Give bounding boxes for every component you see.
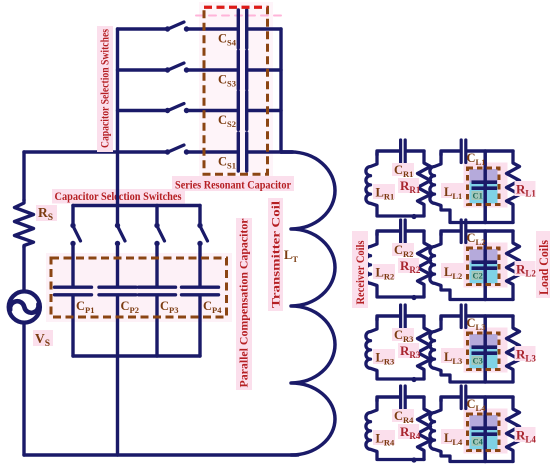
pink halo behind load compensation box 4 [464,409,508,454]
load compensation dashed box 3 [468,333,500,370]
label CR1 [392,163,414,176]
wire switch to capacitor CP3 [155,245,158,286]
inductor LR4 [366,399,424,460]
parallel bank collector wire [73,354,200,357]
load parallel capacitor C2 [472,260,498,264]
pink halo behind parallel compensation capacitor box [46,253,232,322]
pink dashed highlight line above series box [196,15,281,17]
label Capacitor Selection Switches (vertical, series bank) [97,26,113,152]
resistor RR1 [418,151,431,216]
load loop 3 top wire [441,316,460,320]
small label C2 in box [472,271,483,280]
wire stub to switch SP1 [71,206,74,224]
capacitor CL1 [460,140,463,163]
pink halo behind load compensation box 1 [464,163,508,208]
inductor LR2 [366,233,424,297]
wire branch CS3 from bus to switch [118,68,166,71]
capacitor CR1 [399,140,402,163]
svg-text:LT: LT [284,248,298,264]
svg-text:CL2: CL2 [467,231,486,247]
inductor LR3 [366,318,424,379]
svg-text:Receiver Coils: Receiver Coils [355,240,367,305]
wire capacitor CP1 to collector [71,297,74,357]
pink halo behind series resonant capacitor box [199,2,273,180]
pink halo behind load compensation box 2 [464,243,508,288]
switch SP2 (parallel bank) [115,223,120,228]
wire capacitor CP4 to collector [198,297,201,357]
wire capacitor CS1 to right bus [249,150,294,153]
series bank right bus [279,29,282,152]
resistor RR2 [418,231,431,297]
label RL3 [515,346,536,361]
capacitor CL3 [460,305,463,328]
wire branch CS4 from bus to switch [118,27,166,30]
label Receiver Coils (vertical) [352,231,368,308]
parallel compensation capacitor dashed box [51,258,227,317]
capacitor CP2 [99,286,136,289]
junction dot receiver 3 [411,377,416,382]
label RR3 [398,343,419,358]
label RR2 [398,258,419,273]
bottom rail wire [24,453,298,456]
small label C4 in box [472,437,483,446]
load loop 1 top wire [441,151,460,155]
wire main node RS to series bank left bus [24,150,118,153]
label RL4 [515,427,536,442]
wire switch to capacitor CP2 [116,245,119,286]
svg-text:Capacitor Selection Switches: Capacitor Selection Switches [99,28,111,148]
label LR1 [373,184,395,199]
svg-text:C4: C4 [473,437,484,447]
wire branch CS1 from bus to switch [118,150,166,153]
inductor LL3 [430,318,513,382]
label RS [36,205,57,221]
label RL2 [515,261,536,276]
switch SP4 (parallel bank) [197,223,202,228]
resistor RL2 [507,231,520,300]
load loop 4 top wire [441,397,460,401]
label CR3 [392,328,414,341]
junction dot receiver 1 [411,214,416,219]
wire main bus down to parallel switch bus [116,152,119,206]
label LL3 [441,348,465,363]
svg-text:Load Coils: Load Coils [536,240,550,295]
label Series Resonant Capacitor [172,176,294,191]
switch S4 (series bank) [165,26,170,31]
label CR2 [392,243,414,256]
load compensation box fill 3 [470,334,498,348]
receiver loop 2 top wire [377,231,399,235]
wire series bank to transmitter coil [281,150,292,153]
small label C3 in box [472,356,483,365]
wire switch to capacitor CP4 [198,245,201,286]
inductor LL1 [430,153,513,223]
wire capacitor CS4 to right bus [249,27,282,30]
wire branch CS2 from bus to switch [118,109,166,112]
junction dot receiver 2 [411,295,416,300]
svg-text:C3: C3 [473,356,483,366]
capacitor CP3 [139,286,176,289]
load compensation dashed box 1 [468,168,500,205]
label Capacitor Selection Switches (horizontal, parallel bank) [52,189,185,204]
wire capacitor CS3 to right bus [249,68,282,71]
wire stub to switch SP3 [155,206,158,224]
load parallel capacitor C3 [472,345,498,349]
receiver loop 1 top wire [377,151,399,155]
wire resistor to source [22,247,25,291]
svg-text:Parallel Compensation Capacito: Parallel Compensation Capacitor [238,219,250,388]
label LR2 [373,264,395,279]
wire switch to capacitor CP1 [71,245,74,286]
wire switch to capacitor CS1 [188,150,237,153]
wire middle branch load 3 [483,316,487,382]
label Transmitter Coil (vertical) [268,198,283,311]
label VS [33,330,53,346]
label LL4 [441,429,465,444]
wire capacitor CP3 to collector [155,297,158,357]
resistor RL4 [507,397,520,462]
capacitor CR4 [399,386,402,409]
wire stub to switch SP4 [198,206,201,224]
capacitor CP4 [182,286,219,289]
wire capacitor CP2 to collector [116,297,119,357]
label LR3 [373,349,395,364]
load parallel capacitor C4 [472,426,498,430]
capacitor CL2 [460,220,463,243]
capacitor CS1 [237,133,240,171]
capacitor CS3 [237,51,240,89]
transmitter coil LT [281,152,335,455]
svg-text:CL3: CL3 [467,316,486,332]
resistor RS [15,200,34,247]
capacitor CS2 [237,92,240,130]
capacitor CP1 [55,286,92,289]
resistor RR3 [418,316,431,379]
inductor LR1 [366,153,424,216]
series bank left bus [116,29,119,152]
capacitor CL4 [460,386,463,409]
wire source to bottom rail [22,324,25,456]
switch SP1 (parallel bank) [70,223,75,228]
svg-text:C1: C1 [473,191,483,201]
capacitor CS4 [237,10,240,48]
wire stub to switch SP2 [116,206,119,224]
small label C1 in box [472,191,483,200]
parallel switch bus [73,204,200,207]
junction dot receiver 4 [411,457,416,462]
label RR4 [398,424,419,439]
series resonant capacitor dashed box [204,7,268,174]
receiver loop 3 top wire [377,316,399,320]
load loop 2 top wire [441,231,460,235]
load compensation box fill 1 [470,169,498,183]
resistor RR4 [418,397,431,460]
svg-text:Series Resonant Capacitor: Series Resonant Capacitor [175,178,291,192]
load compensation dashed box 2 [468,248,500,285]
label Parallel Compensation Capacitor (vertical) [236,218,252,390]
pink halo behind load compensation box 3 [464,328,508,373]
capacitor CR2 [399,220,402,243]
wire switch to capacitor CS2 [188,109,237,112]
wire middle branch load 2 [483,231,487,300]
inductor LL2 [430,233,513,300]
label RR1 [398,178,419,193]
resistor RL3 [507,316,520,382]
switch SP3 (parallel bank) [154,223,159,228]
load compensation box fill 4 [470,415,498,429]
inductor LL4 [430,399,513,462]
switch S3 (series bank) [165,67,170,72]
svg-text:CL4: CL4 [467,397,487,413]
wire capacitor CS2 to right bus [249,109,282,112]
load parallel capacitor C1 [472,180,498,184]
label LL1 [441,183,465,198]
label LR4 [373,430,395,445]
svg-text:CL1: CL1 [467,151,486,167]
switch S1 (series bank) [165,149,170,154]
receiver loop 4 top wire [377,397,399,401]
label CR4 [392,409,414,422]
wire top-left node to resistor [22,152,25,200]
series box top edge red dashes [204,6,268,9]
wire middle branch load 1 [483,151,487,223]
load compensation box fill 2 [470,249,498,263]
resistor RL1 [507,151,520,223]
wire collector down to bottom rail [116,356,119,455]
AC source VS [9,291,40,322]
capacitor CR3 [399,305,402,328]
label RL1 [515,181,536,196]
wire middle branch load 4 [483,397,487,462]
wire switch to capacitor CS3 [188,68,237,71]
svg-text:C2: C2 [473,271,483,281]
svg-text:Transmitter Coil: Transmitter Coil [270,201,282,308]
label Load Coils (vertical) [536,231,550,298]
label LL2 [441,263,465,278]
load compensation dashed box 4 [468,414,500,451]
switch S2 (series bank) [165,108,170,113]
wire switch to capacitor CS4 [188,27,237,30]
